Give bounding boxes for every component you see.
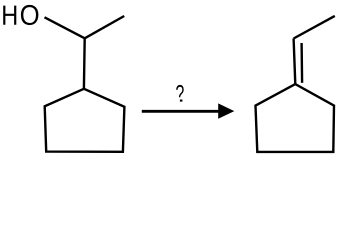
bond C1-ring: [83, 38, 86, 89]
cyclopentane ring (left): [45, 89, 125, 152]
label HO (hydroxyl): letter H: [3, 6, 16, 25]
reaction arrow shaft: [142, 110, 228, 113]
label HO (hydroxyl): letter O: [21, 5, 39, 25]
label ? (question mark over arrow): [176, 85, 184, 102]
cyclopentane ring (right): [256, 84, 335, 152]
double bond C=C main line: [294, 39, 296, 85]
reaction arrowhead: [218, 103, 234, 118]
double bond C=C inner line: [300, 43, 303, 83]
bond C-CH3 (right methyl): [294, 16, 335, 39]
bond C1-CH3 (left methyl): [85, 16, 125, 38]
bond O-C1: [45, 17, 85, 38]
